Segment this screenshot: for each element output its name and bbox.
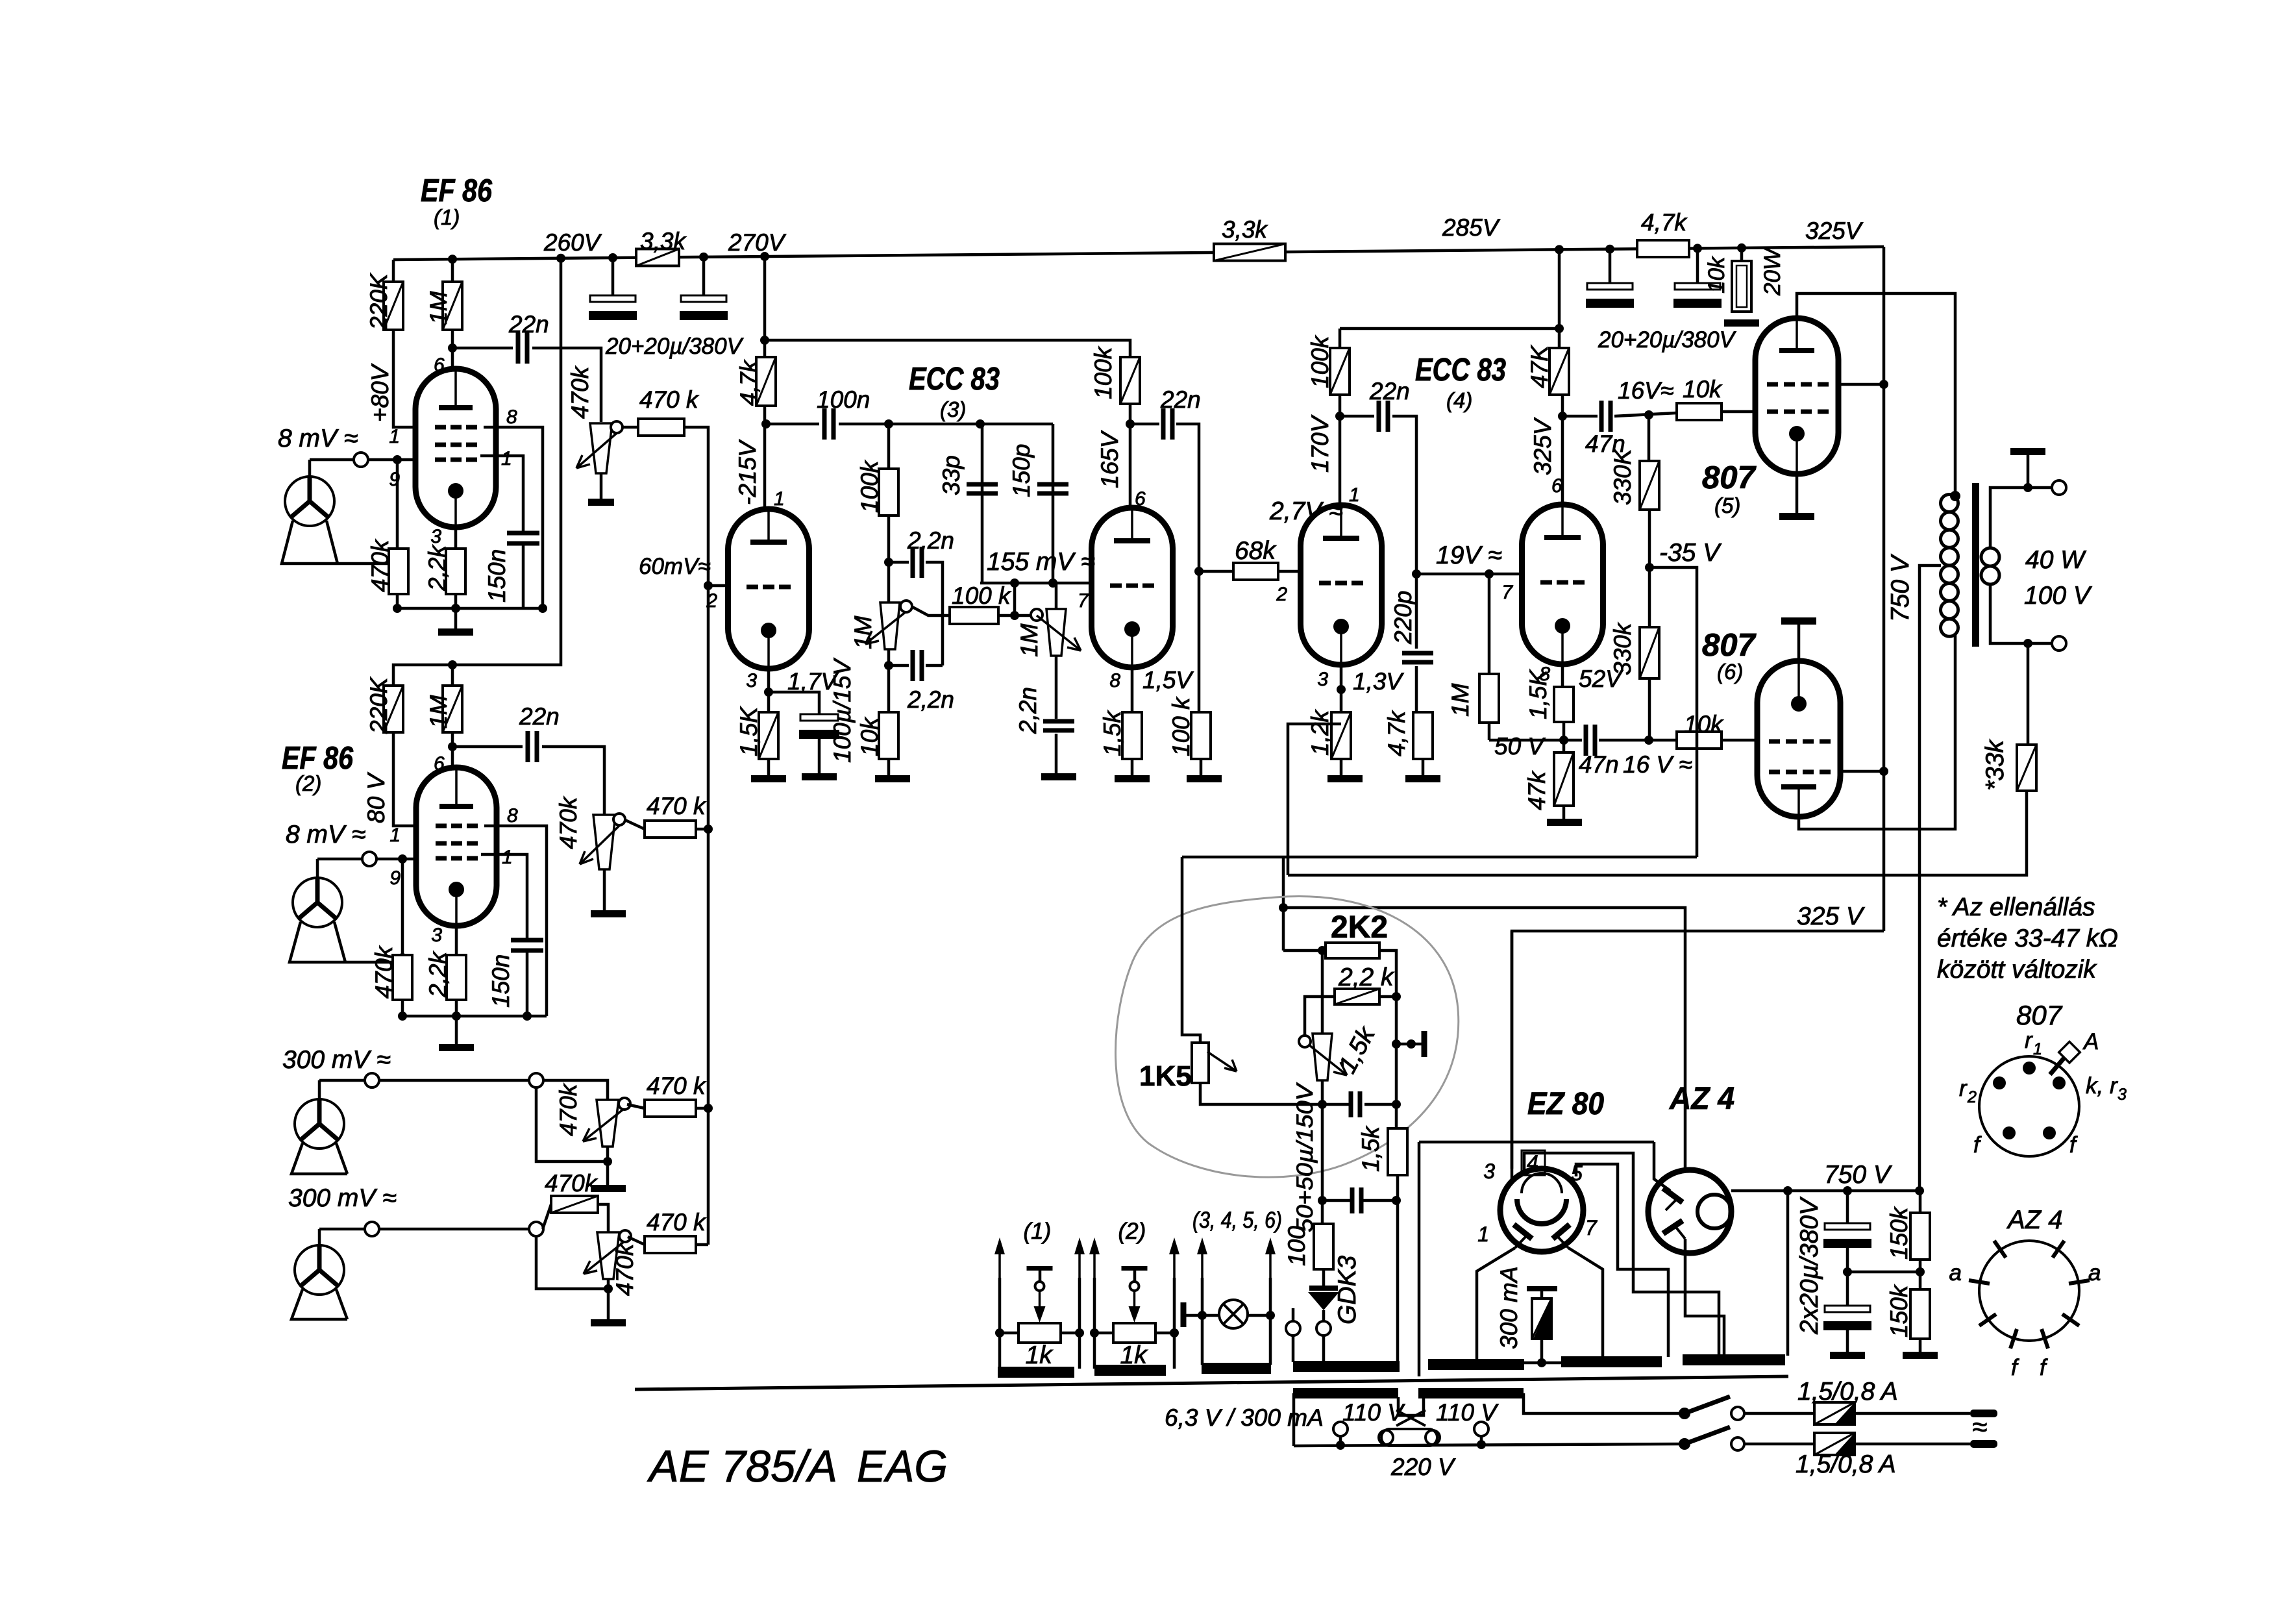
- svg-text:(2): (2): [295, 771, 321, 795]
- svg-text:33p: 33p: [938, 455, 965, 495]
- svg-text:6,3 V / 300 mA: 6,3 V / 300 mA: [1165, 1404, 1324, 1431]
- svg-text:6: 6: [434, 354, 445, 376]
- svg-text:k, r: k, r: [2086, 1073, 2118, 1099]
- svg-text:9: 9: [389, 867, 401, 889]
- svg-text:8: 8: [507, 805, 518, 826]
- svg-text:10k: 10k: [856, 716, 883, 756]
- svg-text:1K5: 1K5: [1139, 1060, 1192, 1092]
- svg-text:1k: 1k: [1026, 1341, 1054, 1369]
- svg-text:2,7V ≈: 2,7V ≈: [1269, 497, 1342, 525]
- svg-text:100k: 100k: [1307, 334, 1333, 388]
- svg-text:47n: 47n: [1579, 751, 1619, 778]
- svg-text:a: a: [1949, 1260, 1962, 1286]
- svg-text:10k: 10k: [1684, 711, 1724, 738]
- svg-text:(6): (6): [1717, 660, 1743, 684]
- svg-text:470k: 470k: [555, 1082, 582, 1136]
- svg-text:1,5V: 1,5V: [1142, 667, 1194, 693]
- svg-text:807: 807: [1702, 460, 1757, 495]
- svg-text:100 k: 100 k: [952, 582, 1012, 609]
- svg-text:1: 1: [389, 426, 400, 447]
- svg-text:150k: 150k: [1886, 1206, 1912, 1260]
- svg-text:A: A: [2082, 1029, 2099, 1054]
- svg-text:7: 7: [1078, 590, 1089, 612]
- svg-text:-215V: -215V: [734, 439, 761, 505]
- svg-text:1,5k: 1,5k: [1099, 710, 1126, 756]
- svg-text:7: 7: [1501, 582, 1513, 603]
- svg-text:2K2: 2K2: [1331, 910, 1388, 945]
- svg-text:47k: 47k: [1524, 770, 1550, 810]
- svg-text:150n: 150n: [488, 954, 514, 1008]
- svg-text:10k: 10k: [1704, 256, 1729, 293]
- svg-text:1M: 1M: [425, 695, 452, 728]
- svg-text:* Az ellenállás: * Az ellenállás: [1937, 893, 2095, 921]
- svg-text:1,5k: 1,5k: [1357, 1125, 1384, 1172]
- svg-text:470 k: 470 k: [647, 1073, 707, 1099]
- svg-text:1: 1: [502, 847, 513, 868]
- svg-text:50 V: 50 V: [1494, 733, 1546, 760]
- svg-text:260V: 260V: [543, 229, 602, 256]
- svg-text:50+50µ/150V: 50+50µ/150V: [1292, 1082, 1318, 1232]
- svg-text:EZ 80: EZ 80: [1527, 1087, 1604, 1121]
- svg-text:155 mV ≈: 155 mV ≈: [987, 548, 1095, 576]
- svg-text:1: 1: [501, 448, 512, 469]
- svg-text:40 W: 40 W: [2025, 546, 2086, 574]
- svg-text:2,2n: 2,2n: [1015, 687, 1041, 734]
- svg-text:22n: 22n: [508, 311, 549, 338]
- svg-text:100n: 100n: [817, 386, 870, 413]
- svg-text:100k: 100k: [856, 459, 883, 513]
- svg-text:47K: 47K: [1526, 344, 1553, 388]
- svg-text:(2): (2): [1118, 1219, 1146, 1244]
- svg-text:r: r: [2025, 1028, 2033, 1053]
- svg-text:100µ/15V: 100µ/15V: [829, 658, 856, 763]
- svg-text:470k: 470k: [371, 945, 397, 999]
- svg-text:1,5/0,8 A: 1,5/0,8 A: [1797, 1378, 1898, 1406]
- svg-text:3: 3: [746, 670, 757, 691]
- svg-text:470k: 470k: [545, 1170, 599, 1197]
- svg-text:285V: 285V: [1442, 214, 1501, 241]
- svg-text:470k: 470k: [567, 365, 593, 419]
- svg-text:220 V: 220 V: [1390, 1454, 1456, 1480]
- svg-text:3: 3: [431, 925, 442, 946]
- svg-text:220p: 220p: [1390, 591, 1416, 645]
- svg-text:értéke 33-47 kΩ: értéke 33-47 kΩ: [1937, 925, 2118, 952]
- svg-text:1: 1: [774, 488, 785, 510]
- svg-text:110 V: 110 V: [1342, 1399, 1405, 1426]
- svg-text:300 mV ≈: 300 mV ≈: [282, 1046, 391, 1074]
- svg-text:EAG: EAG: [857, 1441, 948, 1491]
- svg-text:330k: 330k: [1609, 621, 1636, 675]
- svg-text:3: 3: [2117, 1086, 2127, 1104]
- svg-text:270V: 270V: [728, 229, 787, 256]
- svg-text:2: 2: [1967, 1088, 1977, 1106]
- svg-text:2x20µ/380V: 2x20µ/380V: [1796, 1196, 1823, 1335]
- svg-text:GDK3: GDK3: [1333, 1255, 1361, 1324]
- svg-text:20+20µ/380V: 20+20µ/380V: [605, 334, 745, 359]
- svg-text:16 V ≈: 16 V ≈: [1623, 751, 1692, 778]
- svg-text:470 k: 470 k: [647, 793, 707, 819]
- svg-text:AZ 4: AZ 4: [2006, 1206, 2062, 1234]
- svg-text:470k: 470k: [611, 1242, 638, 1296]
- svg-text:300 mA: 300 mA: [1496, 1266, 1522, 1349]
- svg-text:(1): (1): [1024, 1219, 1052, 1244]
- svg-text:170V: 170V: [1307, 414, 1333, 473]
- svg-text:(3, 4, 5, 6): (3, 4, 5, 6): [1192, 1208, 1282, 1233]
- svg-text:ECC 83: ECC 83: [909, 362, 1000, 397]
- svg-text:2: 2: [1276, 584, 1287, 605]
- svg-text:2,2k: 2,2k: [425, 951, 451, 998]
- svg-text:között változik: között változik: [1937, 956, 2097, 984]
- svg-text:750 V: 750 V: [1886, 553, 1914, 622]
- svg-text:110 V: 110 V: [1436, 1399, 1499, 1426]
- svg-text:1M: 1M: [850, 615, 876, 649]
- svg-text:325 V: 325 V: [1797, 902, 1866, 930]
- svg-text:150k: 150k: [1886, 1284, 1912, 1337]
- svg-text:22n: 22n: [519, 703, 560, 730]
- svg-text:2,2 k: 2,2 k: [1338, 963, 1395, 991]
- svg-text:22n: 22n: [1369, 378, 1410, 404]
- svg-text:1,5/0,8 A: 1,5/0,8 A: [1796, 1450, 1896, 1478]
- svg-text:750 V: 750 V: [1824, 1161, 1893, 1189]
- svg-text:(4): (4): [1446, 388, 1472, 412]
- svg-text:4,7k: 4,7k: [1383, 710, 1410, 756]
- svg-text:EF 86: EF 86: [282, 741, 354, 776]
- svg-text:AZ 4: AZ 4: [1669, 1082, 1734, 1116]
- svg-text:16V≈: 16V≈: [1618, 377, 1673, 404]
- svg-text:1: 1: [389, 825, 401, 846]
- svg-text:165V: 165V: [1096, 430, 1123, 488]
- svg-text:470k: 470k: [555, 795, 582, 849]
- svg-text:150n: 150n: [484, 549, 510, 603]
- svg-text:8 mV ≈: 8 mV ≈: [278, 425, 358, 453]
- svg-text:7: 7: [1585, 1216, 1598, 1239]
- svg-text:470 k: 470 k: [647, 1209, 707, 1236]
- svg-text:*33k: *33k: [1981, 738, 2009, 791]
- svg-text:6: 6: [434, 753, 445, 775]
- svg-text:1: 1: [1477, 1223, 1489, 1246]
- svg-text:8: 8: [1109, 670, 1120, 691]
- svg-text:150p: 150p: [1008, 444, 1035, 497]
- svg-text:2,2k: 2,2k: [424, 544, 451, 591]
- svg-text:1M: 1M: [425, 291, 452, 325]
- svg-text:1: 1: [1349, 484, 1360, 506]
- svg-text:300 mV ≈: 300 mV ≈: [288, 1184, 397, 1212]
- svg-text:AE 785/A: AE 785/A: [647, 1441, 837, 1491]
- svg-text:2,2n: 2,2n: [907, 527, 954, 554]
- svg-text:330K: 330K: [1609, 447, 1636, 505]
- svg-text:4: 4: [1527, 1151, 1538, 1174]
- svg-text:100 V: 100 V: [2024, 582, 2093, 610]
- svg-text:19V ≈: 19V ≈: [1436, 541, 1502, 569]
- svg-text:20W: 20W: [1760, 247, 1785, 296]
- svg-text:4,7k: 4,7k: [735, 359, 762, 406]
- svg-text:+80V: +80V: [367, 363, 393, 422]
- svg-text:1,3V: 1,3V: [1353, 668, 1404, 695]
- svg-text:470 k: 470 k: [639, 386, 700, 413]
- svg-text:6: 6: [1551, 475, 1562, 497]
- svg-text:4,7k: 4,7k: [1641, 209, 1688, 236]
- svg-text:3,3k: 3,3k: [1222, 216, 1268, 243]
- svg-text:100 k: 100 k: [1168, 696, 1194, 756]
- svg-text:(5): (5): [1714, 493, 1740, 517]
- svg-text:2: 2: [706, 590, 717, 612]
- svg-text:220K: 220K: [365, 676, 392, 734]
- svg-text:8 mV ≈: 8 mV ≈: [286, 821, 365, 849]
- svg-text:1: 1: [2033, 1040, 2042, 1058]
- svg-text:325V: 325V: [1805, 217, 1864, 244]
- svg-text:EF 86: EF 86: [421, 173, 493, 208]
- svg-text:1M: 1M: [1016, 623, 1043, 657]
- svg-text:80 V: 80 V: [363, 772, 389, 823]
- svg-text:22n: 22n: [1160, 386, 1201, 413]
- svg-text:20+20µ/380V: 20+20µ/380V: [1598, 327, 1737, 353]
- svg-text:1M: 1M: [1447, 683, 1474, 717]
- svg-text:3: 3: [1317, 669, 1328, 690]
- svg-text:68k: 68k: [1235, 537, 1277, 565]
- svg-text:807: 807: [2016, 1000, 2063, 1030]
- svg-text:325V: 325V: [1529, 417, 1556, 475]
- svg-text:3: 3: [1483, 1160, 1495, 1183]
- svg-text:-35 V: -35 V: [1659, 539, 1722, 567]
- svg-text:220K: 220K: [365, 272, 392, 330]
- svg-text:10k: 10k: [1683, 376, 1723, 403]
- svg-text:r: r: [1959, 1076, 1968, 1101]
- svg-text:1,5K: 1,5K: [735, 706, 762, 756]
- svg-text:807: 807: [1702, 628, 1757, 663]
- svg-text:100k: 100k: [1090, 345, 1117, 399]
- svg-text:1,5K: 1,5K: [1525, 669, 1551, 719]
- svg-text:100: 100: [1283, 1226, 1310, 1266]
- svg-text:470k: 470k: [367, 538, 393, 592]
- svg-text:(1): (1): [434, 205, 460, 229]
- svg-text:8: 8: [506, 406, 517, 428]
- svg-text:a: a: [2088, 1260, 2101, 1286]
- svg-text:60mV≈: 60mV≈: [639, 554, 711, 579]
- svg-text:1,2k: 1,2k: [1307, 709, 1333, 756]
- svg-text:3: 3: [430, 526, 441, 547]
- svg-text:ECC 83: ECC 83: [1415, 353, 1506, 388]
- svg-text:6: 6: [1135, 488, 1146, 510]
- svg-text:≈: ≈: [1972, 1411, 1987, 1442]
- svg-text:3,3k: 3,3k: [640, 228, 687, 255]
- svg-text:2,2n: 2,2n: [907, 686, 954, 713]
- svg-text:(3): (3): [940, 397, 966, 421]
